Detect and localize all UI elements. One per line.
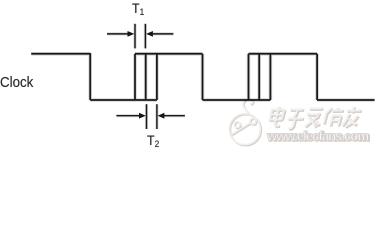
watermark chinese text white layer [266, 107, 361, 129]
label T1 [132, 1, 144, 17]
dimension ink [107, 24, 185, 129]
label Clock [0, 75, 33, 91]
dimension halo [107, 24, 185, 129]
dimension T2 right arrowhead [158, 113, 165, 119]
waveform ink [31, 53, 374, 100]
label T2 [147, 133, 159, 149]
watermark chinese text shadow layer [267, 108, 362, 130]
waveform halo [31, 53, 374, 100]
svg-text:www.elecfans.com: www.elecfans.com [266, 128, 369, 143]
watermark logo white layer [229, 98, 260, 144]
dimension T2 left arrowhead [139, 113, 146, 119]
dimension T1 right arrowhead [146, 31, 153, 37]
dimension T1 left arrowhead [128, 31, 135, 37]
watermark logo shadow layer [230, 99, 261, 145]
